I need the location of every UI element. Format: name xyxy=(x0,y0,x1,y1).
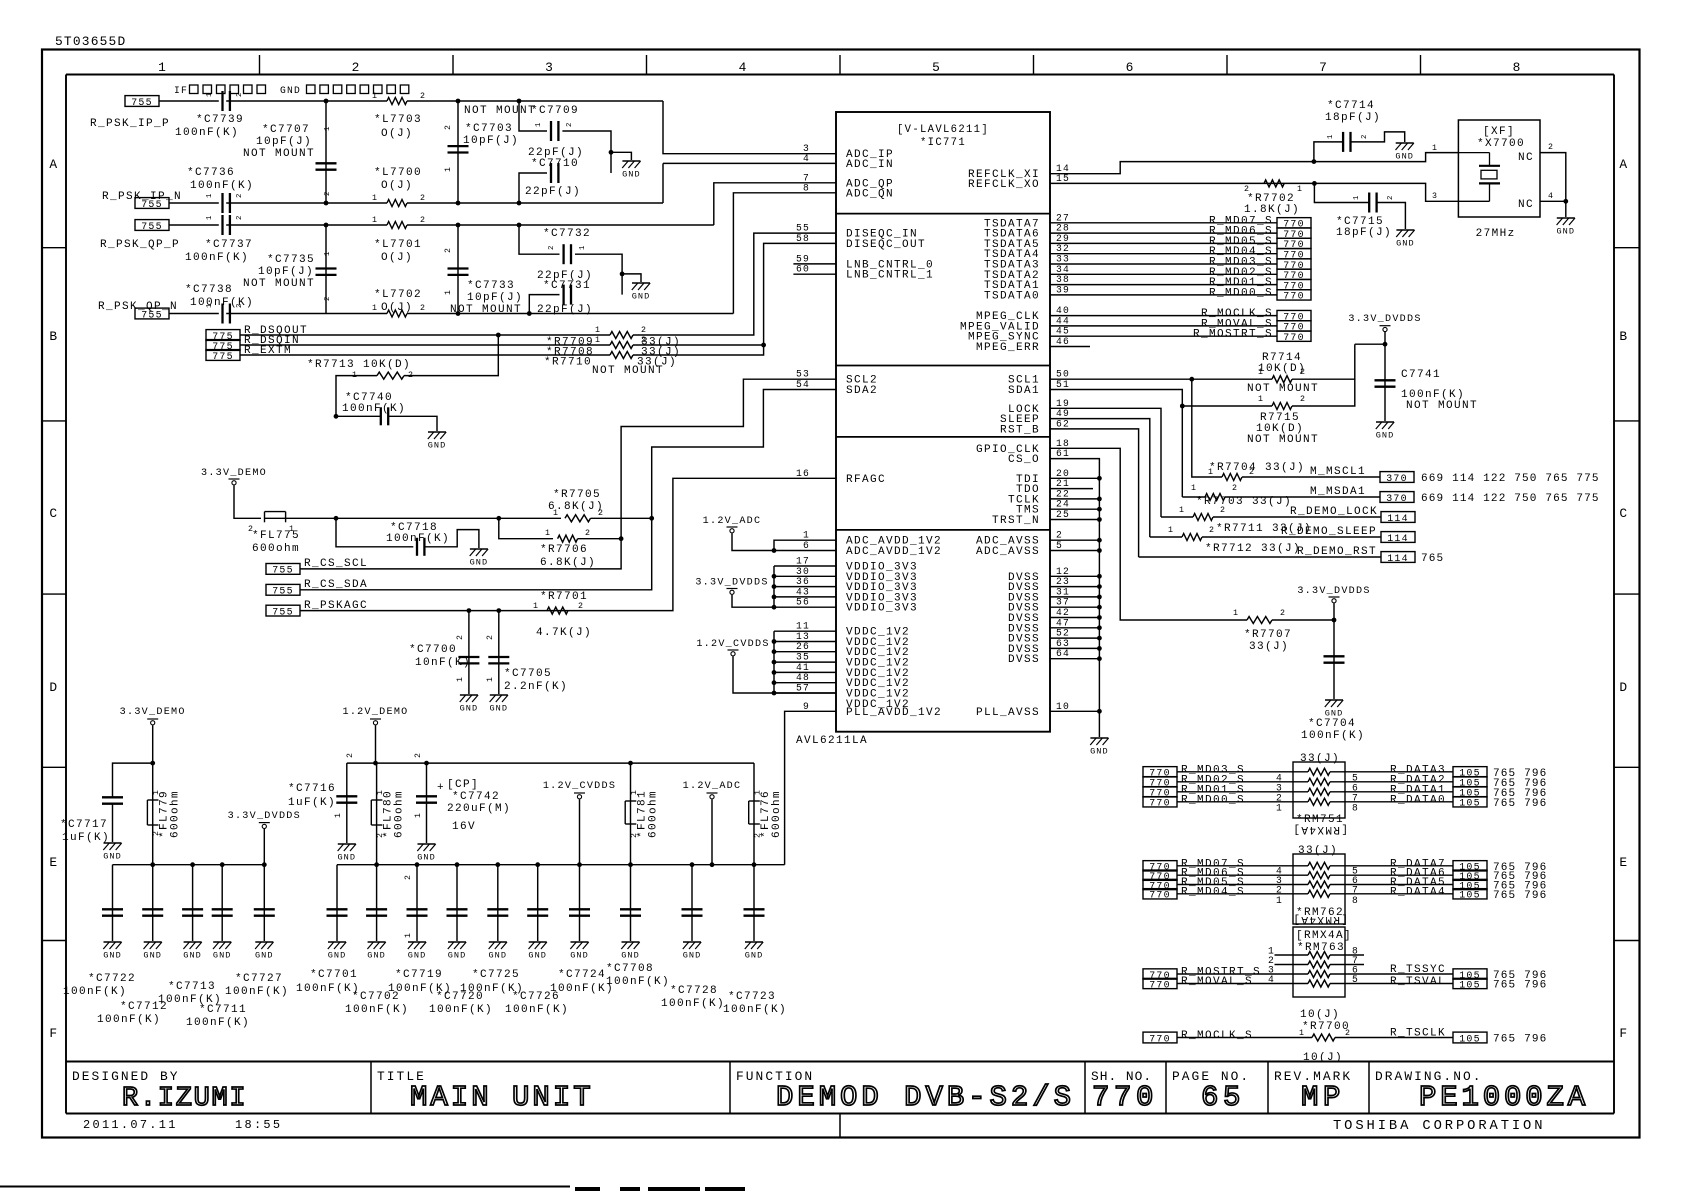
svg-text:18:55: 18:55 xyxy=(235,1118,282,1132)
svg-text:IF: IF xyxy=(174,85,188,96)
wire net R_MD04_S xyxy=(1050,253,1277,255)
resistor R7712 xyxy=(1182,534,1202,541)
wire R_MOVAL_S to RM753 xyxy=(1177,983,1308,985)
svg-text:2: 2 xyxy=(1220,506,1226,515)
junction pin10 gnd bus xyxy=(1097,709,1102,714)
wire C7713 vertical xyxy=(152,865,154,941)
net R_TSVAL exit 105 xyxy=(1453,978,1487,990)
svg-text:GND: GND xyxy=(143,951,162,961)
svg-text:2: 2 xyxy=(404,874,413,880)
svg-text:2: 2 xyxy=(346,752,355,758)
wire net R_MD07_S xyxy=(1050,222,1277,224)
ground C7704 xyxy=(1325,700,1344,719)
ground C7701 xyxy=(328,942,347,961)
junction pin5 gnd bus xyxy=(1097,548,1102,553)
junction 3.3V cap bus xyxy=(190,862,195,867)
svg-text:56: 56 xyxy=(796,597,810,608)
svg-text:1: 1 xyxy=(1276,802,1283,813)
svg-text:755: 755 xyxy=(272,586,294,597)
junction VDDIO bus xyxy=(772,605,777,610)
wire R7708 to junction xyxy=(633,344,764,346)
ground C7719 xyxy=(408,942,427,961)
wire net SDA2 xyxy=(300,390,836,590)
svg-text:765 796: 765 796 xyxy=(1493,980,1547,992)
row scale letters A-F right xyxy=(1614,157,1640,1041)
svg-text:PLL_AVDD_1V2: PLL_AVDD_1V2 xyxy=(846,707,942,719)
wire DVSS pin47 xyxy=(1050,627,1099,629)
wire pin21 TDO stub xyxy=(1050,488,1093,490)
svg-text:C: C xyxy=(49,506,58,521)
svg-text:ADC_AVSS: ADC_AVSS xyxy=(976,546,1040,558)
svg-text:100nF(K): 100nF(K) xyxy=(97,1014,161,1026)
wire C7712 vertical xyxy=(192,865,194,941)
svg-text:O(J): O(J) xyxy=(381,128,413,140)
wire 1.2V cap bus xyxy=(337,864,785,866)
net R_CS_SDA exit 755 xyxy=(266,584,300,596)
junction C7709/C7710 gnd xyxy=(609,150,614,155)
ground C7712 xyxy=(183,942,202,961)
svg-text:1: 1 xyxy=(1191,484,1197,493)
svg-text:100nF(K): 100nF(K) xyxy=(723,1004,787,1016)
resistor R7708 xyxy=(610,342,633,349)
wire C7718 leg xyxy=(336,518,413,547)
wire net GPIO_CLK xyxy=(1050,448,1247,620)
svg-text:100nF(K): 100nF(K) xyxy=(296,983,360,995)
svg-text:3: 3 xyxy=(1432,192,1438,201)
svg-text:GND: GND xyxy=(367,951,386,961)
junction pin37 gnd bus xyxy=(1097,605,1102,610)
junction row4/C7733 xyxy=(456,311,461,316)
svg-text:A: A xyxy=(49,157,58,172)
wire net SCL1 xyxy=(1050,378,1272,380)
svg-text:GND: GND xyxy=(1090,747,1109,757)
svg-text:*C7725: *C7725 xyxy=(472,969,520,981)
wire ADC_AVSS pin5 xyxy=(1050,550,1099,552)
resistor R7709 xyxy=(610,332,633,339)
junction FL775/C7718 leg xyxy=(334,516,339,521)
svg-text:DEMOD DVB-S2/S: DEMOD DVB-S2/S xyxy=(776,1081,1075,1114)
svg-text:2: 2 xyxy=(1300,395,1306,404)
svg-text:2: 2 xyxy=(324,296,332,301)
svg-text:33(J): 33(J) xyxy=(1249,641,1289,653)
svg-text:4: 4 xyxy=(803,153,810,164)
svg-text:2: 2 xyxy=(352,60,361,75)
wire C7725 vertical xyxy=(497,865,499,941)
svg-text:2: 2 xyxy=(1387,195,1395,200)
svg-text:*R7700: *R7700 xyxy=(1302,1021,1350,1033)
wire R7707 to node xyxy=(1272,619,1334,621)
junction RFAGC/C7700 xyxy=(467,608,472,613)
resistor RM752 element 2 xyxy=(1308,872,1330,879)
ground C7740 xyxy=(428,432,447,451)
svg-text:1: 1 xyxy=(324,126,332,131)
wire net PLL_AVDD elbow xyxy=(785,711,836,864)
svg-text:600ohm: 600ohm xyxy=(648,790,660,838)
svg-text:100nF(K): 100nF(K) xyxy=(505,1004,569,1016)
net R_MOCLK_S entry 770 xyxy=(1143,1032,1177,1044)
svg-text:16: 16 xyxy=(796,468,810,479)
svg-text:GND: GND xyxy=(255,951,274,961)
svg-text:*R7706: *R7706 xyxy=(540,544,588,556)
wire net ADC_QN elbow xyxy=(733,193,836,314)
svg-text:10nF(K): 10nF(K) xyxy=(415,657,471,669)
wire pin17 xyxy=(774,565,836,567)
resistor R7704 xyxy=(1222,474,1242,481)
junction pin22 gnd bus xyxy=(1097,497,1102,502)
svg-text:MP: MP xyxy=(1301,1081,1345,1114)
svg-text:R_PSK_IP_P: R_PSK_IP_P xyxy=(90,118,170,130)
svg-text:PLL_AVSS: PLL_AVSS xyxy=(976,707,1040,719)
svg-text:6: 6 xyxy=(1126,60,1135,75)
wire R_MD07_S to RM752 xyxy=(1177,865,1308,867)
wire R_DSQOUT to R7709 xyxy=(240,334,610,336)
wire FL780 top xyxy=(376,763,378,800)
svg-text:GND: GND xyxy=(570,951,589,961)
svg-text:10: 10 xyxy=(1056,701,1070,712)
svg-text:GND: GND xyxy=(448,951,467,961)
svg-text:1: 1 xyxy=(595,326,601,335)
wire C7704 vertical xyxy=(1333,620,1335,699)
svg-text:+: + xyxy=(437,782,445,794)
capacitor C7739 xyxy=(223,91,230,111)
svg-text:100nF(K): 100nF(K) xyxy=(63,986,127,998)
junction SDA1/R7715 xyxy=(1180,404,1185,409)
svg-text:1: 1 xyxy=(1297,185,1303,194)
wire R_MD04_S to RM752 xyxy=(1177,893,1308,895)
svg-text:105: 105 xyxy=(1459,979,1481,990)
wire X7700 NC pins xyxy=(1540,153,1566,202)
wire net R_DEMO_SLEEP xyxy=(1150,536,1182,538)
wire 3.3V to R7707 node xyxy=(1333,604,1335,621)
svg-text:1: 1 xyxy=(372,304,378,313)
svg-text:NOT MOUNT: NOT MOUNT xyxy=(464,105,536,117)
wire net SLEEP xyxy=(1050,419,1150,537)
resistor RM753 element 4 xyxy=(1308,980,1330,987)
junction REFCLK_XI/C7714 xyxy=(1312,159,1317,164)
svg-text:755: 755 xyxy=(141,221,163,232)
wire net R_MD05_S xyxy=(1050,242,1277,244)
svg-text:755: 755 xyxy=(131,97,153,108)
svg-text:DVSS: DVSS xyxy=(1008,654,1040,666)
ground C7720 xyxy=(448,942,467,961)
svg-text:CS_O: CS_O xyxy=(1008,454,1040,466)
svg-text:*C7735: *C7735 xyxy=(267,254,315,266)
svg-text:1: 1 xyxy=(206,92,214,97)
junction row2/C7703 xyxy=(456,201,461,206)
ground C7732/C7731 xyxy=(632,283,651,302)
net R_MOVAL_S exit 770 xyxy=(1277,321,1311,333)
wire 3.3V_DVDDS to pin56 xyxy=(732,595,836,607)
wire RM751 to R_DATA1 xyxy=(1330,791,1453,793)
resistor R7703 xyxy=(1205,494,1225,501)
junction VDDC bus xyxy=(772,639,777,644)
ground C7723 xyxy=(745,942,764,961)
resistor R7705 xyxy=(565,515,591,522)
net R_DATA7 exit 105 xyxy=(1453,861,1487,873)
svg-text:GND: GND xyxy=(103,852,122,862)
capacitor C7712 100nF xyxy=(182,909,203,915)
svg-text:*C7710: *C7710 xyxy=(531,158,579,170)
capacitor C7735 10pF NOT MOUNT xyxy=(316,269,337,275)
junction FL781 top bus xyxy=(628,761,633,766)
power 1.2V_ADC at IC xyxy=(703,516,762,533)
wire pin11 xyxy=(774,630,836,632)
svg-text:R_MD00_S: R_MD00_S xyxy=(1209,287,1273,299)
net R_DEMO_LOCK exit 114 xyxy=(1381,512,1415,524)
svg-text:F: F xyxy=(49,1026,58,1041)
wire net RST_B xyxy=(1050,429,1139,557)
resistor RM752 element 3 xyxy=(1308,881,1330,888)
net R_TSSYC exit 105 xyxy=(1453,969,1487,981)
wire C7719 vertical xyxy=(416,865,418,941)
svg-text:7: 7 xyxy=(1352,884,1359,895)
svg-text:1uF(K): 1uF(K) xyxy=(288,797,336,809)
svg-text:2: 2 xyxy=(444,124,453,130)
capacitor C7715 18pF xyxy=(1369,193,1376,213)
wire row1 to C7709 xyxy=(519,101,547,131)
svg-text:1: 1 xyxy=(533,602,539,611)
svg-text:1: 1 xyxy=(1168,526,1174,535)
wire 3.3V to junction xyxy=(1355,332,1385,344)
wire C7731 to row4 xyxy=(529,295,559,314)
wire C7742 vertical xyxy=(426,763,428,843)
svg-text:NC: NC xyxy=(1518,199,1534,211)
svg-text:GND: GND xyxy=(489,704,508,714)
net R_MD01_S exit 770 xyxy=(1277,279,1311,291)
svg-text:25: 25 xyxy=(1056,509,1070,520)
junction 1.2V cap bus xyxy=(455,862,460,867)
bottom clipped print marks xyxy=(575,1187,745,1191)
svg-text:R_TSCLK: R_TSCLK xyxy=(1390,1028,1446,1040)
svg-text:8: 8 xyxy=(1352,802,1359,813)
power 1.2V_CVDDS at IC xyxy=(696,639,769,656)
wire C7723 vertical xyxy=(753,865,755,941)
wire L7700 to pin4 corner xyxy=(407,202,663,204)
svg-text:100nF(K): 100nF(K) xyxy=(190,180,254,192)
wire C7707 vertical xyxy=(325,101,327,203)
net M_MSDA1 exit 370 xyxy=(1380,492,1414,504)
wire RM753 to R_TSVAL xyxy=(1330,983,1453,985)
wire FL776 to bus xyxy=(753,824,755,865)
svg-text:105: 105 xyxy=(1459,798,1481,809)
svg-text:370: 370 xyxy=(1386,493,1408,504)
svg-text:1: 1 xyxy=(444,166,453,172)
wire C7705 vertical xyxy=(498,611,500,694)
ground C7728 xyxy=(683,942,702,961)
wire net R_MD03_S xyxy=(1050,263,1277,265)
svg-text:1: 1 xyxy=(206,193,214,198)
wire R_MD00_S to RM751 xyxy=(1177,801,1308,803)
junction VDDIO bus xyxy=(772,574,777,579)
svg-text:GND: GND xyxy=(622,170,641,180)
svg-text:100nF(K): 100nF(K) xyxy=(175,127,239,139)
junction 3.3V cap bus xyxy=(150,862,155,867)
svg-text:1: 1 xyxy=(206,215,214,220)
svg-text:105: 105 xyxy=(1459,1033,1481,1044)
wire VDDIO bus xyxy=(773,566,775,607)
wire R7706 to SCL2 xyxy=(578,538,622,540)
resistor network RM752 body xyxy=(1293,854,1345,924)
svg-text:2: 2 xyxy=(324,191,332,196)
svg-text:R_DEMO_LOCK: R_DEMO_LOCK xyxy=(1290,506,1378,518)
svg-text:*R7712 33(J): *R7712 33(J) xyxy=(1205,543,1301,555)
wire R7704 to 370 box xyxy=(1242,476,1380,478)
wire R_MOCLK_S to R7700 xyxy=(1177,1037,1312,1039)
svg-text:10pF(J): 10pF(J) xyxy=(467,292,523,304)
capacitor C7722 100nF xyxy=(102,909,123,915)
ground IC771 AVSS bus xyxy=(1090,738,1109,757)
wire gnd stub top xyxy=(611,152,631,160)
svg-text:LNB_CNTRL_1: LNB_CNTRL_1 xyxy=(846,270,934,282)
wire DVSS pin64 xyxy=(1050,658,1099,660)
wire RM752 to R_DATA5 xyxy=(1330,884,1453,886)
wire net REFCLK_XI xyxy=(1050,153,1458,174)
svg-text:100nF(K): 100nF(K) xyxy=(606,976,670,988)
wire pin25 xyxy=(1050,519,1099,521)
net R_MD01_S entry 770 xyxy=(1143,787,1177,799)
capacitor C7736 xyxy=(223,193,230,213)
wire R_MD01_S to RM751 xyxy=(1177,791,1308,793)
wire LNB_CNTRL_1 stub xyxy=(793,273,836,275)
wire R7713 left leg xyxy=(336,376,377,417)
svg-text:GND: GND xyxy=(528,951,547,961)
svg-text:2: 2 xyxy=(1548,143,1554,152)
svg-text:1: 1 xyxy=(444,289,453,295)
svg-text:1: 1 xyxy=(404,932,413,938)
junction pin63 gnd bus xyxy=(1097,646,1102,651)
svg-text:7: 7 xyxy=(1319,60,1328,75)
net R_DATA0 exit 105 xyxy=(1453,797,1487,809)
wire VDDC pin xyxy=(774,671,836,673)
svg-text:*C7738: *C7738 xyxy=(185,284,233,296)
svg-text:33(J): 33(J) xyxy=(1300,753,1340,765)
svg-text:1: 1 xyxy=(456,676,465,682)
svg-text:5: 5 xyxy=(1056,540,1063,551)
ground C7726 xyxy=(528,942,547,961)
net R_DSQIN entry 775 xyxy=(206,340,240,352)
wire 1.2V_ADC to pin6 xyxy=(732,534,836,551)
wire C7702 vertical xyxy=(376,865,378,941)
svg-text:*C7711: *C7711 xyxy=(199,1004,247,1016)
svg-text:A: A xyxy=(1619,157,1628,172)
svg-text:1: 1 xyxy=(372,92,378,101)
svg-text:6: 6 xyxy=(803,540,810,551)
wire C7709 to gnd node xyxy=(562,131,611,173)
net R_PSK_IP_N entry 755 xyxy=(135,198,169,210)
capacitor C7724 100nF xyxy=(569,909,590,915)
inductor L7700 xyxy=(387,200,407,207)
wire X7700 to gnd xyxy=(1565,201,1567,217)
svg-text:2: 2 xyxy=(420,92,426,101)
wire VDDC pin xyxy=(774,692,836,694)
capacitor C7702 100nF xyxy=(366,909,387,915)
svg-text:3.3V_DEMO: 3.3V_DEMO xyxy=(201,468,267,479)
junction RFAGC/C7705 xyxy=(496,608,501,613)
svg-text:755: 755 xyxy=(272,606,294,617)
net R_MD05_S exit 770 xyxy=(1277,238,1311,250)
svg-text:600ohm: 600ohm xyxy=(771,790,783,838)
svg-text:R_CS_SDA: R_CS_SDA xyxy=(304,579,368,591)
svg-text:2: 2 xyxy=(1209,526,1215,535)
svg-text:*C7728: *C7728 xyxy=(670,985,718,997)
svg-text:770: 770 xyxy=(1283,291,1305,302)
svg-text:1: 1 xyxy=(1299,1029,1305,1038)
junction 3.3V/C7741 xyxy=(1383,342,1388,347)
IC771 right pin names xyxy=(960,169,1040,719)
capacitor C7704 xyxy=(1324,656,1345,662)
svg-text:*C7707: *C7707 xyxy=(262,124,310,136)
ground C7702 xyxy=(367,942,386,961)
svg-text:*L7703: *L7703 xyxy=(374,114,422,126)
svg-text:*IC771: *IC771 xyxy=(920,137,966,149)
capacitor C7726 100nF xyxy=(527,909,548,915)
resistor R7702 xyxy=(1264,180,1284,187)
junction SCL1/M_MSCL1 xyxy=(1189,377,1194,382)
svg-text:R_TSSYC: R_TSSYC xyxy=(1390,964,1446,976)
wire RM753 pin8 stub xyxy=(1330,954,1364,956)
junction 1.2V cap bus xyxy=(628,862,633,867)
svg-text:1: 1 xyxy=(535,122,543,127)
svg-text:33(J): 33(J) xyxy=(1298,845,1338,857)
svg-text:GND: GND xyxy=(1396,239,1415,249)
svg-text:15: 15 xyxy=(1056,173,1070,184)
svg-text:3.3V_DEMO: 3.3V_DEMO xyxy=(120,707,186,718)
svg-text:6.8K(J): 6.8K(J) xyxy=(540,557,596,569)
capacitor C7718 xyxy=(417,538,424,556)
junction SDA2/R7705 xyxy=(649,516,654,521)
junction 3.3V cap bus xyxy=(220,862,225,867)
svg-text:*C7714: *C7714 xyxy=(1327,100,1375,112)
svg-text:*C7701: *C7701 xyxy=(310,969,358,981)
svg-text:SDA2: SDA2 xyxy=(846,385,878,397)
svg-text:GND: GND xyxy=(632,292,651,302)
capacitor C7708 100nF xyxy=(620,909,641,915)
wire pin43 xyxy=(774,596,836,598)
ferrite bead FL781 xyxy=(625,801,636,824)
svg-text:GND: GND xyxy=(745,951,764,961)
wire MPEG_ERR stub xyxy=(1050,346,1090,348)
svg-text:GND: GND xyxy=(428,441,447,451)
wire VDDC pin xyxy=(774,682,836,684)
ground C7727 xyxy=(255,942,274,961)
net R_DATA5 exit 105 xyxy=(1453,879,1487,891)
svg-text:*C7727: *C7727 xyxy=(235,973,283,985)
svg-text:1: 1 xyxy=(334,812,343,818)
wire R7713 to R_DSQOUT xyxy=(404,335,498,376)
svg-text:2: 2 xyxy=(1276,884,1283,895)
wire net ADC_QP elbow xyxy=(714,183,836,225)
junction VDDC bus xyxy=(772,670,777,675)
junction row2/C7710 xyxy=(517,201,522,206)
junction pin31 gnd bus xyxy=(1097,595,1102,600)
wire net M_MSDA1 xyxy=(1182,496,1205,498)
ground C7708 xyxy=(621,942,640,961)
wire RM752 to R_DATA6 xyxy=(1330,874,1453,876)
svg-text:E: E xyxy=(49,855,58,870)
svg-text:114: 114 xyxy=(1387,533,1409,544)
ground C7741 xyxy=(1376,422,1395,441)
svg-text:669 114 122 750 765 775: 669 114 122 750 765 775 xyxy=(1421,473,1600,485)
svg-text:*C7723: *C7723 xyxy=(728,991,776,1003)
svg-text:770: 770 xyxy=(1092,1081,1158,1114)
svg-text:GND: GND xyxy=(280,85,301,96)
svg-text:4.7K(J): 4.7K(J) xyxy=(536,627,592,639)
junction row1/C7703 xyxy=(456,99,461,104)
wire net SDA1 xyxy=(1050,390,1182,498)
capacitor C7714 18pF xyxy=(1343,132,1350,152)
svg-text:2: 2 xyxy=(566,122,574,127)
svg-text:NOT MOUNT: NOT MOUNT xyxy=(243,278,315,290)
